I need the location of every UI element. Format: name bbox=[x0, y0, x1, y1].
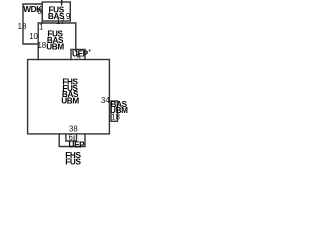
small porch box at middle-right bbox=[71, 50, 85, 60]
svg-text:18: 18 bbox=[111, 113, 120, 122]
svg-text:9: 9 bbox=[66, 12, 70, 21]
svg-text:18: 18 bbox=[18, 22, 27, 31]
svg-text:UBM: UBM bbox=[61, 97, 79, 106]
bottom porch outer box bbox=[59, 134, 85, 147]
top addition box FUS/BAS outline bbox=[42, 2, 70, 21]
main house box outline bbox=[28, 60, 110, 134]
wood deck right edge bbox=[41, 4, 43, 23]
right bay attachment BAS/UBM outline bbox=[111, 101, 117, 121]
svg-text:UEP: UEP bbox=[69, 140, 86, 149]
svg-text:34: 34 bbox=[101, 96, 110, 105]
svg-text:8: 8 bbox=[38, 7, 42, 16]
wood deck WDK outline bbox=[23, 4, 42, 44]
svg-text:17: 17 bbox=[56, 17, 65, 26]
svg-text:5: 5 bbox=[76, 53, 81, 62]
svg-text:10: 10 bbox=[29, 32, 38, 41]
svg-text:FUS: FUS bbox=[65, 158, 81, 167]
tick after dimension 6 bbox=[73, 136, 76, 141]
bottom porch inner box bbox=[66, 134, 77, 141]
middle addition box FUS/BAS/UBM outline bbox=[38, 23, 76, 60]
svg-text:1: 1 bbox=[39, 23, 43, 32]
svg-text:UBM: UBM bbox=[46, 43, 64, 52]
small dot after porch label bbox=[89, 50, 91, 52]
clipped dimension tick above top box bbox=[61, 0, 62, 6]
svg-text:18: 18 bbox=[37, 41, 46, 50]
